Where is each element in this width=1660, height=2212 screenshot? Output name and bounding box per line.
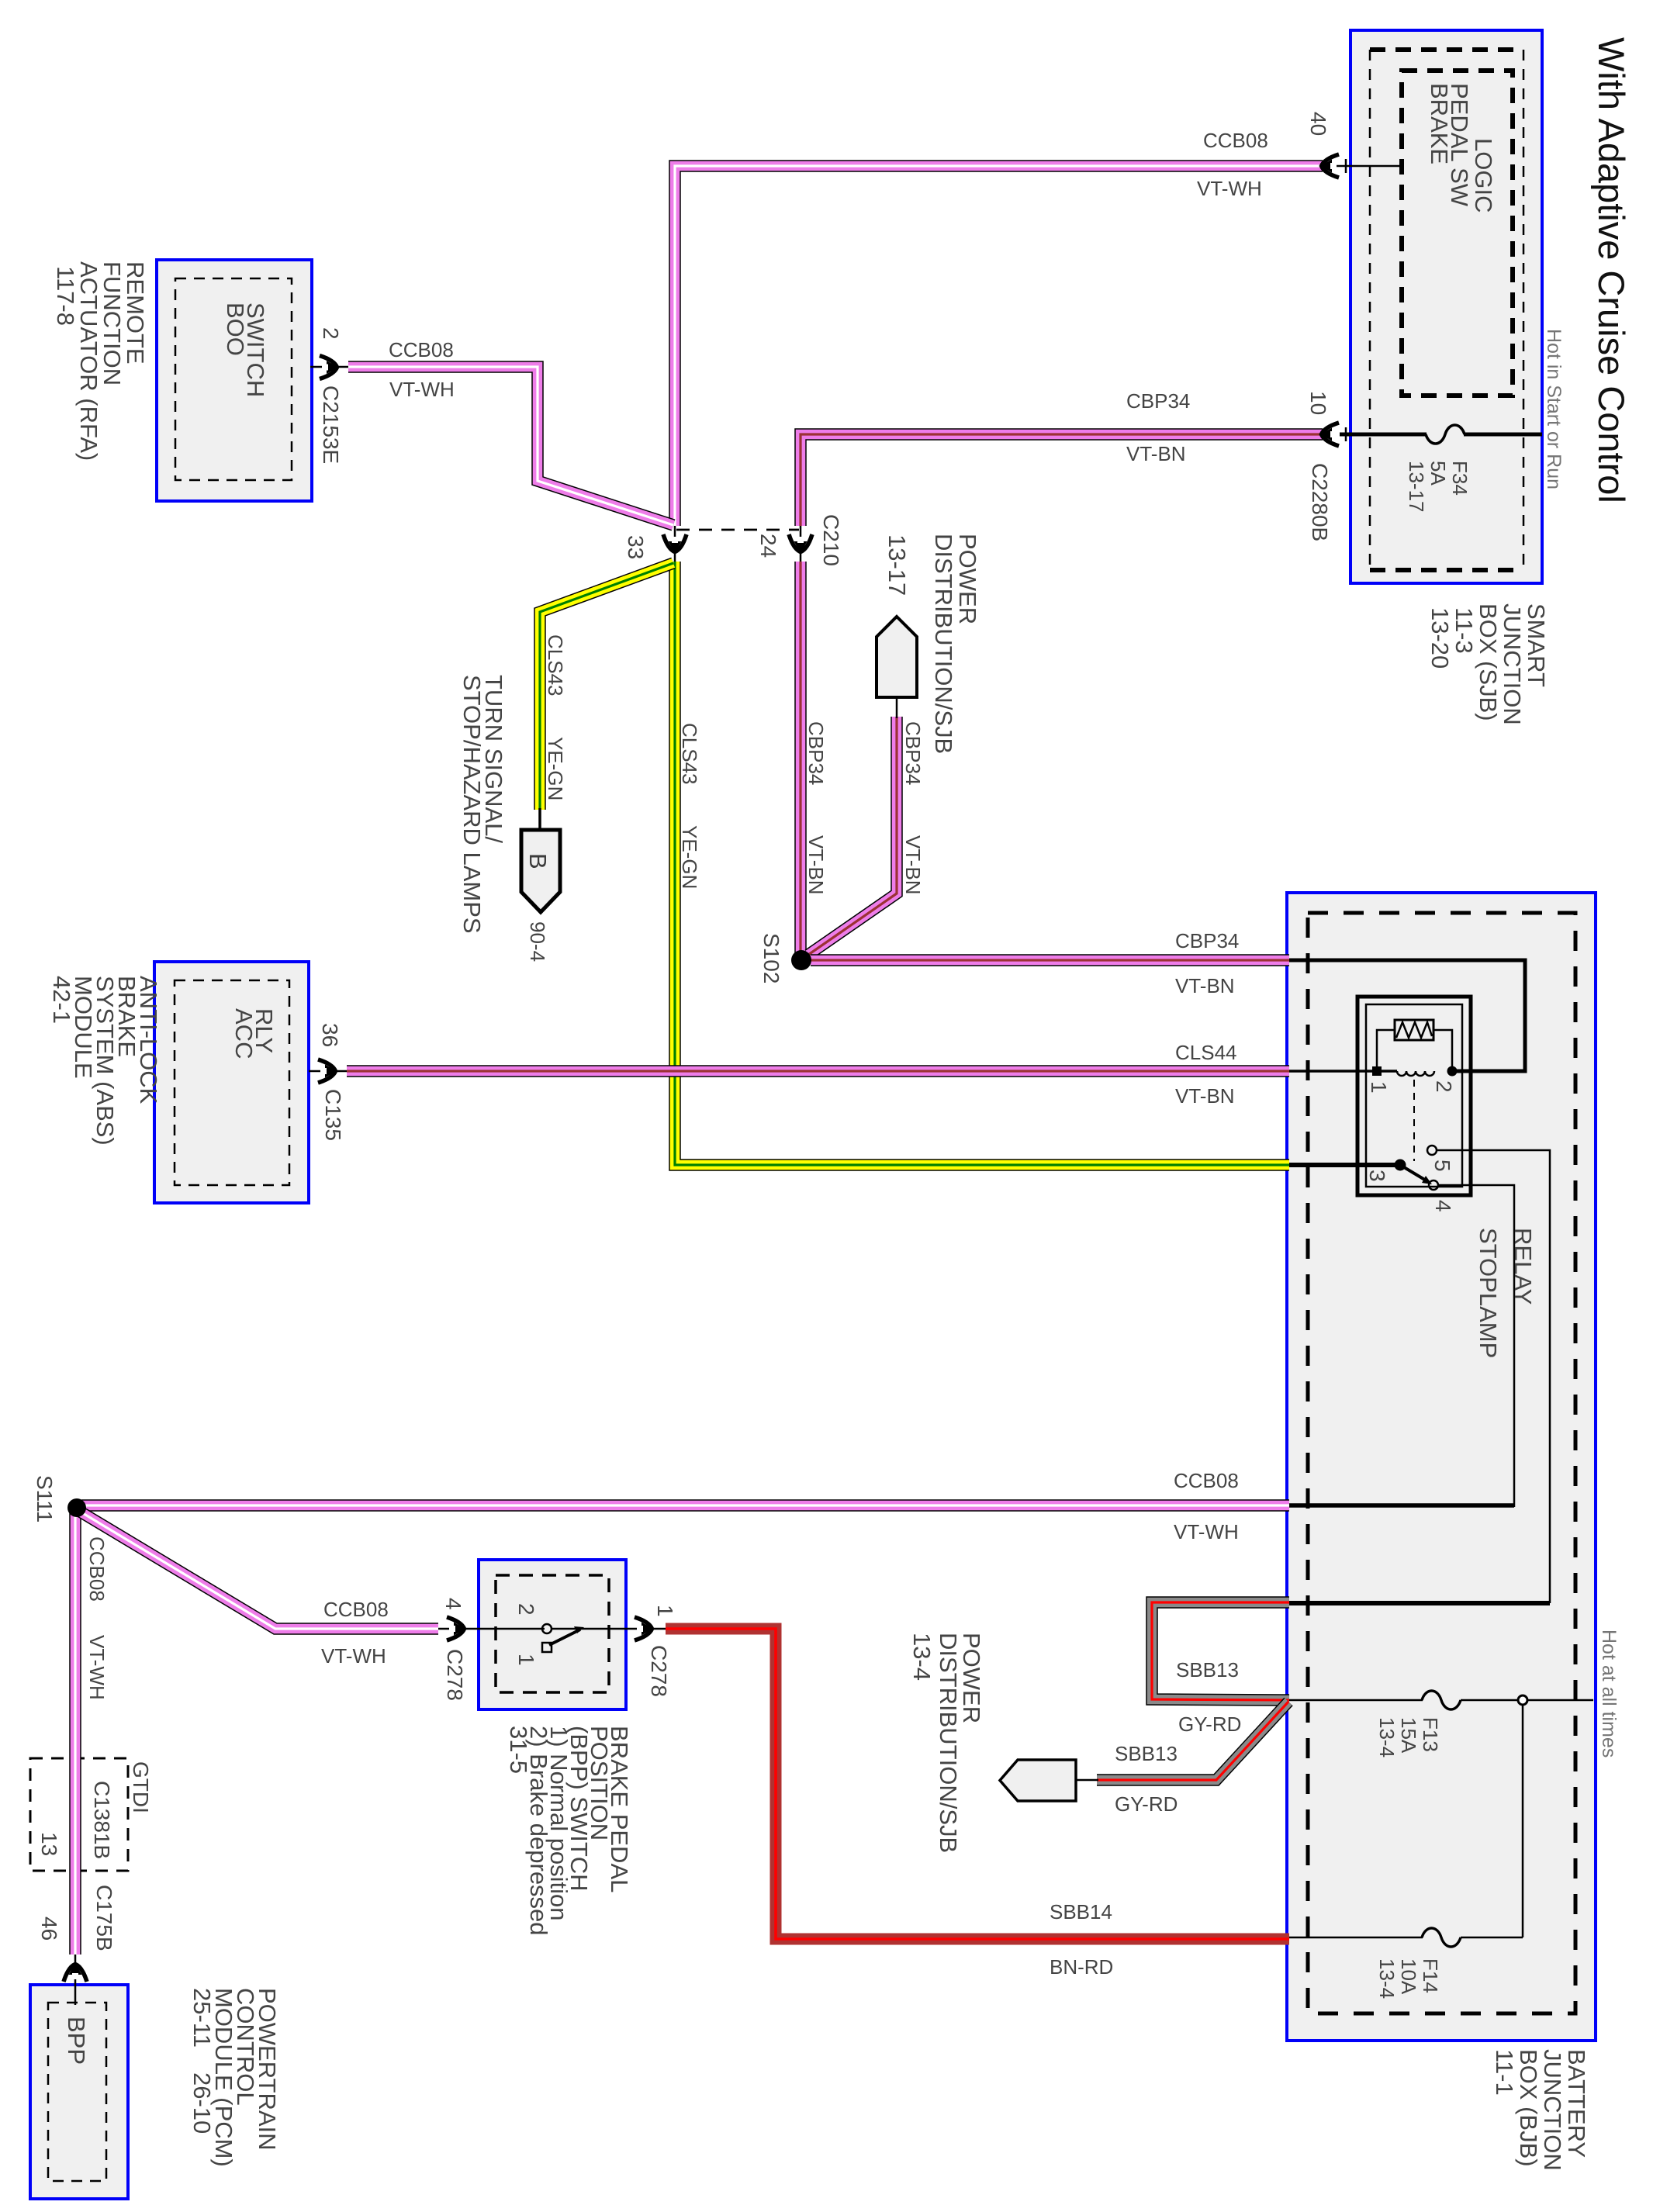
BPP contact 2 <box>542 1624 552 1633</box>
connector 33 arrow <box>674 526 676 562</box>
relay pin 5 contact <box>1427 1146 1437 1155</box>
wire CBP34 VT-BN connector 24 down to S102 <box>794 562 807 956</box>
svg-text:C278: C278 <box>443 1649 467 1701</box>
connector arrow ABS pin 36 C135 <box>309 1070 347 1073</box>
wire SJB pin 40 internal <box>1323 165 1402 168</box>
label F13 15A 13-4 <box>1375 1717 1442 1758</box>
svg-text:RELAY: RELAY <box>1510 1228 1537 1305</box>
wire CCB08 VT-WH from BOO switch to junction <box>348 367 673 525</box>
svg-text:4: 4 <box>1431 1200 1455 1212</box>
label ANTI-LOCK BRAKE SYSTEM (ABS) MODULE 42-1 <box>48 976 162 1146</box>
svg-text:C1381B: C1381B <box>90 1781 114 1859</box>
stoplamp relay inner box <box>1366 1004 1462 1187</box>
off-page pentagon B to turn signal lamps <box>521 830 560 912</box>
wire CLS43 YE-GN main run from connector 33 to BJB <box>675 562 1289 1165</box>
BPP switch wire <box>479 1628 545 1630</box>
label POWER DISTRIBUTION/SJB 13-4 <box>908 1633 985 1853</box>
svg-text:F14: F14 <box>1419 1958 1442 1993</box>
svg-text:VT-BN: VT-BN <box>804 835 828 895</box>
label F14 10A 13-4 <box>1375 1958 1442 1999</box>
connector arrow SJB pin 40 <box>1320 154 1339 178</box>
svg-text:YE-GN: YE-GN <box>544 737 567 800</box>
relay actuator dashed line <box>1413 1080 1415 1161</box>
svg-text:BATTERY: BATTERY <box>1563 2049 1590 2158</box>
svg-text:13-17: 13-17 <box>1405 461 1428 513</box>
box: BRAKE PEDAL POSITION (BPP) SWITCH <box>479 1560 626 1709</box>
wire CBP34 inside BJB to relay pin 2 <box>1289 960 1525 1071</box>
wire CCB08 inside BJB to relay pin 4 <box>1289 1503 1514 1508</box>
svg-text:GTDI: GTDI <box>129 1761 153 1813</box>
svg-text:CCB08: CCB08 <box>85 1536 109 1602</box>
svg-text:C278: C278 <box>647 1645 671 1697</box>
ABS inner dashed box: ACC RLY <box>175 980 289 1185</box>
relay resistor zigzag <box>1396 1022 1432 1038</box>
svg-text:DISTRIBUTION/SJB: DISTRIBUTION/SJB <box>930 534 957 754</box>
label CBP34 VT-BN pentagon branch <box>901 721 925 895</box>
off-page pentagon POWER DISTRIBUTION/SJB 13-17 <box>877 617 917 697</box>
svg-text:C135: C135 <box>321 1089 345 1141</box>
wire battery bus junction vertical <box>1522 1705 1524 1937</box>
svg-text:10A: 10A <box>1397 1958 1420 1995</box>
box: GTDI connector C1381B dashed <box>30 1758 128 1871</box>
connector arrow BPP pin 4 C278 <box>438 1628 479 1630</box>
connector 24 arrow C210 <box>800 526 802 562</box>
wire stub to B pentagon <box>538 808 541 830</box>
label BATTERY JUNCTION BOX (BJB) 11-1 <box>1491 2049 1590 2171</box>
relay pin 4 contact <box>1429 1180 1438 1190</box>
in-line connector dashed link 33-24 <box>676 529 799 531</box>
label BRAKE PEDAL POSITION (BPP) SWITCH notes 31-5 <box>505 1726 633 1936</box>
svg-text:STOPLAMP: STOPLAMP <box>1475 1228 1502 1358</box>
connector arrow BPP pin 1 C278 right <box>626 1628 666 1630</box>
wire CCB08 VT-WH from SJB pin 40 down to connector 33 <box>675 166 1323 526</box>
junction circle on F13 line <box>1518 1695 1527 1705</box>
svg-text:BOX (SJB): BOX (SJB) <box>1475 603 1502 721</box>
svg-text:5: 5 <box>1430 1160 1454 1172</box>
svg-text:GY-RD: GY-RD <box>1115 1792 1178 1816</box>
svg-text:2: 2 <box>1432 1080 1456 1093</box>
off-page pentagon POWER DISTRIBUTION/SJB 13-4 <box>1000 1760 1076 1801</box>
svg-text:BOX (BJB): BOX (BJB) <box>1515 2049 1542 2167</box>
svg-text:13-4: 13-4 <box>1375 1958 1399 1999</box>
svg-text:2: 2 <box>514 1603 538 1616</box>
svg-text:5A: 5A <box>1427 461 1450 486</box>
svg-text:CBP34: CBP34 <box>1126 389 1190 413</box>
svg-text:42-1: 42-1 <box>48 976 75 1024</box>
svg-text:CBP34: CBP34 <box>804 721 828 785</box>
svg-text:2: 2 <box>319 327 343 340</box>
svg-text:10: 10 <box>1306 391 1330 415</box>
svg-text:VT-BN: VT-BN <box>1175 974 1235 997</box>
svg-text:SBB13: SBB13 <box>1176 1658 1239 1681</box>
svg-text:13: 13 <box>37 1832 61 1856</box>
svg-text:SBB14: SBB14 <box>1050 1900 1112 1923</box>
svg-text:15A: 15A <box>1397 1717 1420 1754</box>
svg-text:POWER: POWER <box>954 534 981 624</box>
wire CLS43 YE-GN branch to B pentagon <box>540 563 673 810</box>
svg-text:1: 1 <box>514 1654 538 1666</box>
svg-text:1: 1 <box>653 1605 677 1617</box>
svg-text:CBP34: CBP34 <box>901 721 925 785</box>
svg-text:CCB08: CCB08 <box>389 338 454 361</box>
svg-text:CCB08: CCB08 <box>1174 1469 1239 1492</box>
splice S102 <box>791 950 811 970</box>
svg-text:VT-WH: VT-WH <box>389 378 455 401</box>
label CLS43 YE-GN main <box>678 723 701 889</box>
label CBP34 VT-BN at C210 run <box>804 721 828 895</box>
svg-text:VT-WH: VT-WH <box>321 1644 386 1668</box>
relay armature <box>1400 1165 1427 1181</box>
svg-text:Hot at all times: Hot at all times <box>1598 1630 1620 1758</box>
wire CBP34 VT-BN from SJB pin 10 down to connector 24 <box>801 434 1323 526</box>
relay coil winding <box>1397 1071 1434 1076</box>
label CLS43 YE-GN branch <box>544 634 567 800</box>
SJB inner dashed box: BRAKE PEDAL SW LOGIC <box>1402 71 1513 396</box>
svg-text:Hot in Start or Run: Hot in Start or Run <box>1543 329 1565 489</box>
svg-text:LOGIC: LOGIC <box>1470 138 1497 213</box>
wire CLS44 inside BJB to relay pin 1 <box>1289 1070 1397 1073</box>
svg-text:RLY: RLY <box>251 1008 278 1053</box>
label STOPLAMP RELAY <box>1475 1228 1537 1358</box>
svg-text:B: B <box>524 853 552 869</box>
wire CLS43 inside BJB to relay pin 3 <box>1289 1163 1400 1167</box>
svg-text:13-17: 13-17 <box>884 534 911 596</box>
svg-text:VT-BN: VT-BN <box>901 835 925 895</box>
connector arrow PCM pin 46 C175B <box>74 1955 77 2005</box>
wire F14 fuse line <box>1289 1937 1423 1939</box>
wire CBP34 VT-BN pentagon branch to S102 <box>808 717 897 955</box>
connector arrow BOO switch pin 2 C2153E <box>310 366 348 368</box>
svg-text:CCB08: CCB08 <box>323 1598 389 1621</box>
svg-text:CCB08: CCB08 <box>1203 129 1268 152</box>
svg-text:24: 24 <box>756 534 780 558</box>
svg-text:VT-BN: VT-BN <box>1126 442 1186 465</box>
svg-text:3: 3 <box>1365 1170 1389 1182</box>
svg-text:SMART: SMART <box>1523 603 1550 687</box>
svg-text:S111: S111 <box>33 1475 57 1522</box>
svg-text:VT-BN: VT-BN <box>1175 1084 1235 1108</box>
svg-text:4: 4 <box>441 1598 465 1610</box>
BPP inner dashed box <box>496 1575 609 1692</box>
splice S111 <box>67 1498 86 1517</box>
svg-text:31-5: 31-5 <box>505 1726 532 1774</box>
svg-text:90-4: 90-4 <box>526 921 549 962</box>
svg-text:46: 46 <box>37 1916 61 1941</box>
box: SMART JUNCTION BOX (SJB) <box>1350 30 1542 583</box>
fuse F13 15A <box>1422 1691 1461 1709</box>
svg-text:117-8: 117-8 <box>52 266 79 326</box>
svg-text:CLS44: CLS44 <box>1175 1041 1237 1064</box>
svg-text:CBP34: CBP34 <box>1175 929 1239 952</box>
svg-text:13-4: 13-4 <box>1375 1717 1399 1758</box>
svg-text:33: 33 <box>624 535 648 559</box>
svg-text:DISTRIBUTION/SJB: DISTRIBUTION/SJB <box>935 1633 962 1853</box>
svg-text:13-4: 13-4 <box>908 1633 935 1681</box>
svg-text:STOP/HAZARD LAMPS: STOP/HAZARD LAMPS <box>458 675 486 934</box>
PCM inner dashed box: BPP <box>48 2003 106 2181</box>
svg-text:C2280B: C2280B <box>1308 463 1332 541</box>
relay pin 3 contact <box>1395 1160 1406 1171</box>
fuse F34 5A <box>1426 425 1465 444</box>
BPP contact 1 <box>542 1643 552 1652</box>
wire CBP34 VT-BN from S102 to BJB <box>811 954 1289 966</box>
SJB outer dashed border <box>1370 50 1523 570</box>
svg-text:VT-WH: VT-WH <box>1197 177 1262 200</box>
relay coil resistor rect <box>1395 1020 1433 1040</box>
connector arrow SJB pin 10 C2280B <box>1320 423 1339 446</box>
svg-text:CLS43: CLS43 <box>544 634 567 696</box>
svg-text:S102: S102 <box>759 933 783 983</box>
relay pin labels 1 2 3 5 4 <box>1365 1080 1456 1212</box>
box: REMOTE FUNCTION ACTUATOR (RFA) <box>157 260 312 501</box>
wire SBB13 GY-RD loop at BJB <box>1152 1602 1289 1700</box>
svg-text:CLS43: CLS43 <box>678 723 701 785</box>
svg-text:25-11: 25-11 <box>188 1988 216 2048</box>
svg-text:C2153E: C2153E <box>319 385 343 464</box>
label TURN SIGNAL STOP HAZARD LAMPS <box>458 675 507 934</box>
svg-text:GY-RD: GY-RD <box>1178 1713 1241 1736</box>
wire stub below pentagon <box>896 697 898 718</box>
relay pin 2 pad <box>1447 1066 1458 1077</box>
svg-text:JUNCTION: JUNCTION <box>1499 603 1526 725</box>
box: POWERTRAIN CONTROL MODULE (PCM) <box>30 1985 128 2199</box>
svg-text:JUNCTION: JUNCTION <box>1539 2049 1566 2171</box>
wire F13 fuse line <box>1289 1699 1423 1702</box>
svg-text:SWITCH: SWITCH <box>242 302 269 397</box>
svg-text:26-10: 26-10 <box>188 2072 216 2134</box>
stoplamp relay outer box <box>1357 997 1471 1195</box>
svg-text:SBB13: SBB13 <box>1115 1742 1178 1765</box>
svg-text:13-20: 13-20 <box>1427 607 1454 669</box>
label SMART JUNCTION BOX (SJB) 11-3 13-20 <box>1427 603 1550 725</box>
svg-text:36: 36 <box>318 1023 342 1047</box>
svg-text:F13: F13 <box>1419 1717 1442 1752</box>
label REMOTE FUNCTION ACTUATOR (RFA) 117-8 <box>52 261 149 461</box>
label POWER DISTRIBUTION/SJB 13-17 <box>884 534 981 754</box>
wire stub to pentagon 13-4 <box>1076 1779 1098 1782</box>
svg-text:With Adaptive Cruise Control: With Adaptive Cruise Control <box>1591 37 1632 503</box>
label BOO SWITCH <box>222 302 269 397</box>
box: ANTI-LOCK BRAKE SYSTEM (ABS) MODULE <box>154 962 309 1203</box>
BJB inner dashed border <box>1308 913 1575 2013</box>
relay pin 1 pad <box>1372 1066 1382 1076</box>
label ACC RLY <box>230 1008 278 1059</box>
svg-text:11-3: 11-3 <box>1451 607 1478 654</box>
wire CCB08 VT-WH from S111 to BJB <box>81 1499 1289 1512</box>
svg-text:11-1: 11-1 <box>1491 2049 1518 2096</box>
label BRAKE PEDAL SW <box>1426 83 1473 207</box>
svg-text:C210: C210 <box>819 514 843 566</box>
wire CCB08 VT-WH from S111 down to PCM <box>69 1512 81 1955</box>
svg-text:40: 40 <box>1306 112 1330 136</box>
svg-text:YE-GN: YE-GN <box>678 825 701 889</box>
wire SBB13 GY-RD to pentagon <box>1097 1702 1288 1780</box>
label CCB08 VT-WH vertical <box>85 1536 109 1700</box>
wire SJB pin 10 fuse feed <box>1340 433 1427 437</box>
svg-text:BN-RD: BN-RD <box>1050 1955 1113 1979</box>
BPP armature <box>549 1630 580 1645</box>
wire SBB14 BN-RD from BPP to BJB <box>666 1629 1289 1939</box>
svg-text:BPP: BPP <box>63 2017 90 2065</box>
wire CCB08 VT-WH from S111 to BPP switch <box>78 1510 438 1629</box>
svg-text:PEDAL SW: PEDAL SW <box>1446 83 1473 207</box>
label POWERTRAIN CONTROL MODULE (PCM) 25-11 26-10 <box>188 1988 281 2167</box>
svg-text:1: 1 <box>1367 1081 1391 1094</box>
wire relay pin 5 to SBB13 exit <box>1437 1150 1550 1603</box>
svg-text:VT-WH: VT-WH <box>85 1635 109 1700</box>
wire CLS44 VT-BN from ABS to BJB <box>347 1065 1289 1077</box>
svg-text:VT-WH: VT-WH <box>1174 1520 1239 1543</box>
svg-text:F34: F34 <box>1448 461 1472 496</box>
RFA inner dashed box: BOO SWITCH <box>175 278 292 480</box>
svg-text:C175B: C175B <box>92 1885 116 1951</box>
box: BATTERY JUNCTION BOX (BJB) <box>1287 893 1596 2041</box>
fuse F14 10A <box>1422 1928 1461 1947</box>
label F34 5A 13-17 <box>1405 461 1472 513</box>
relay resistor leads <box>1377 1030 1395 1071</box>
